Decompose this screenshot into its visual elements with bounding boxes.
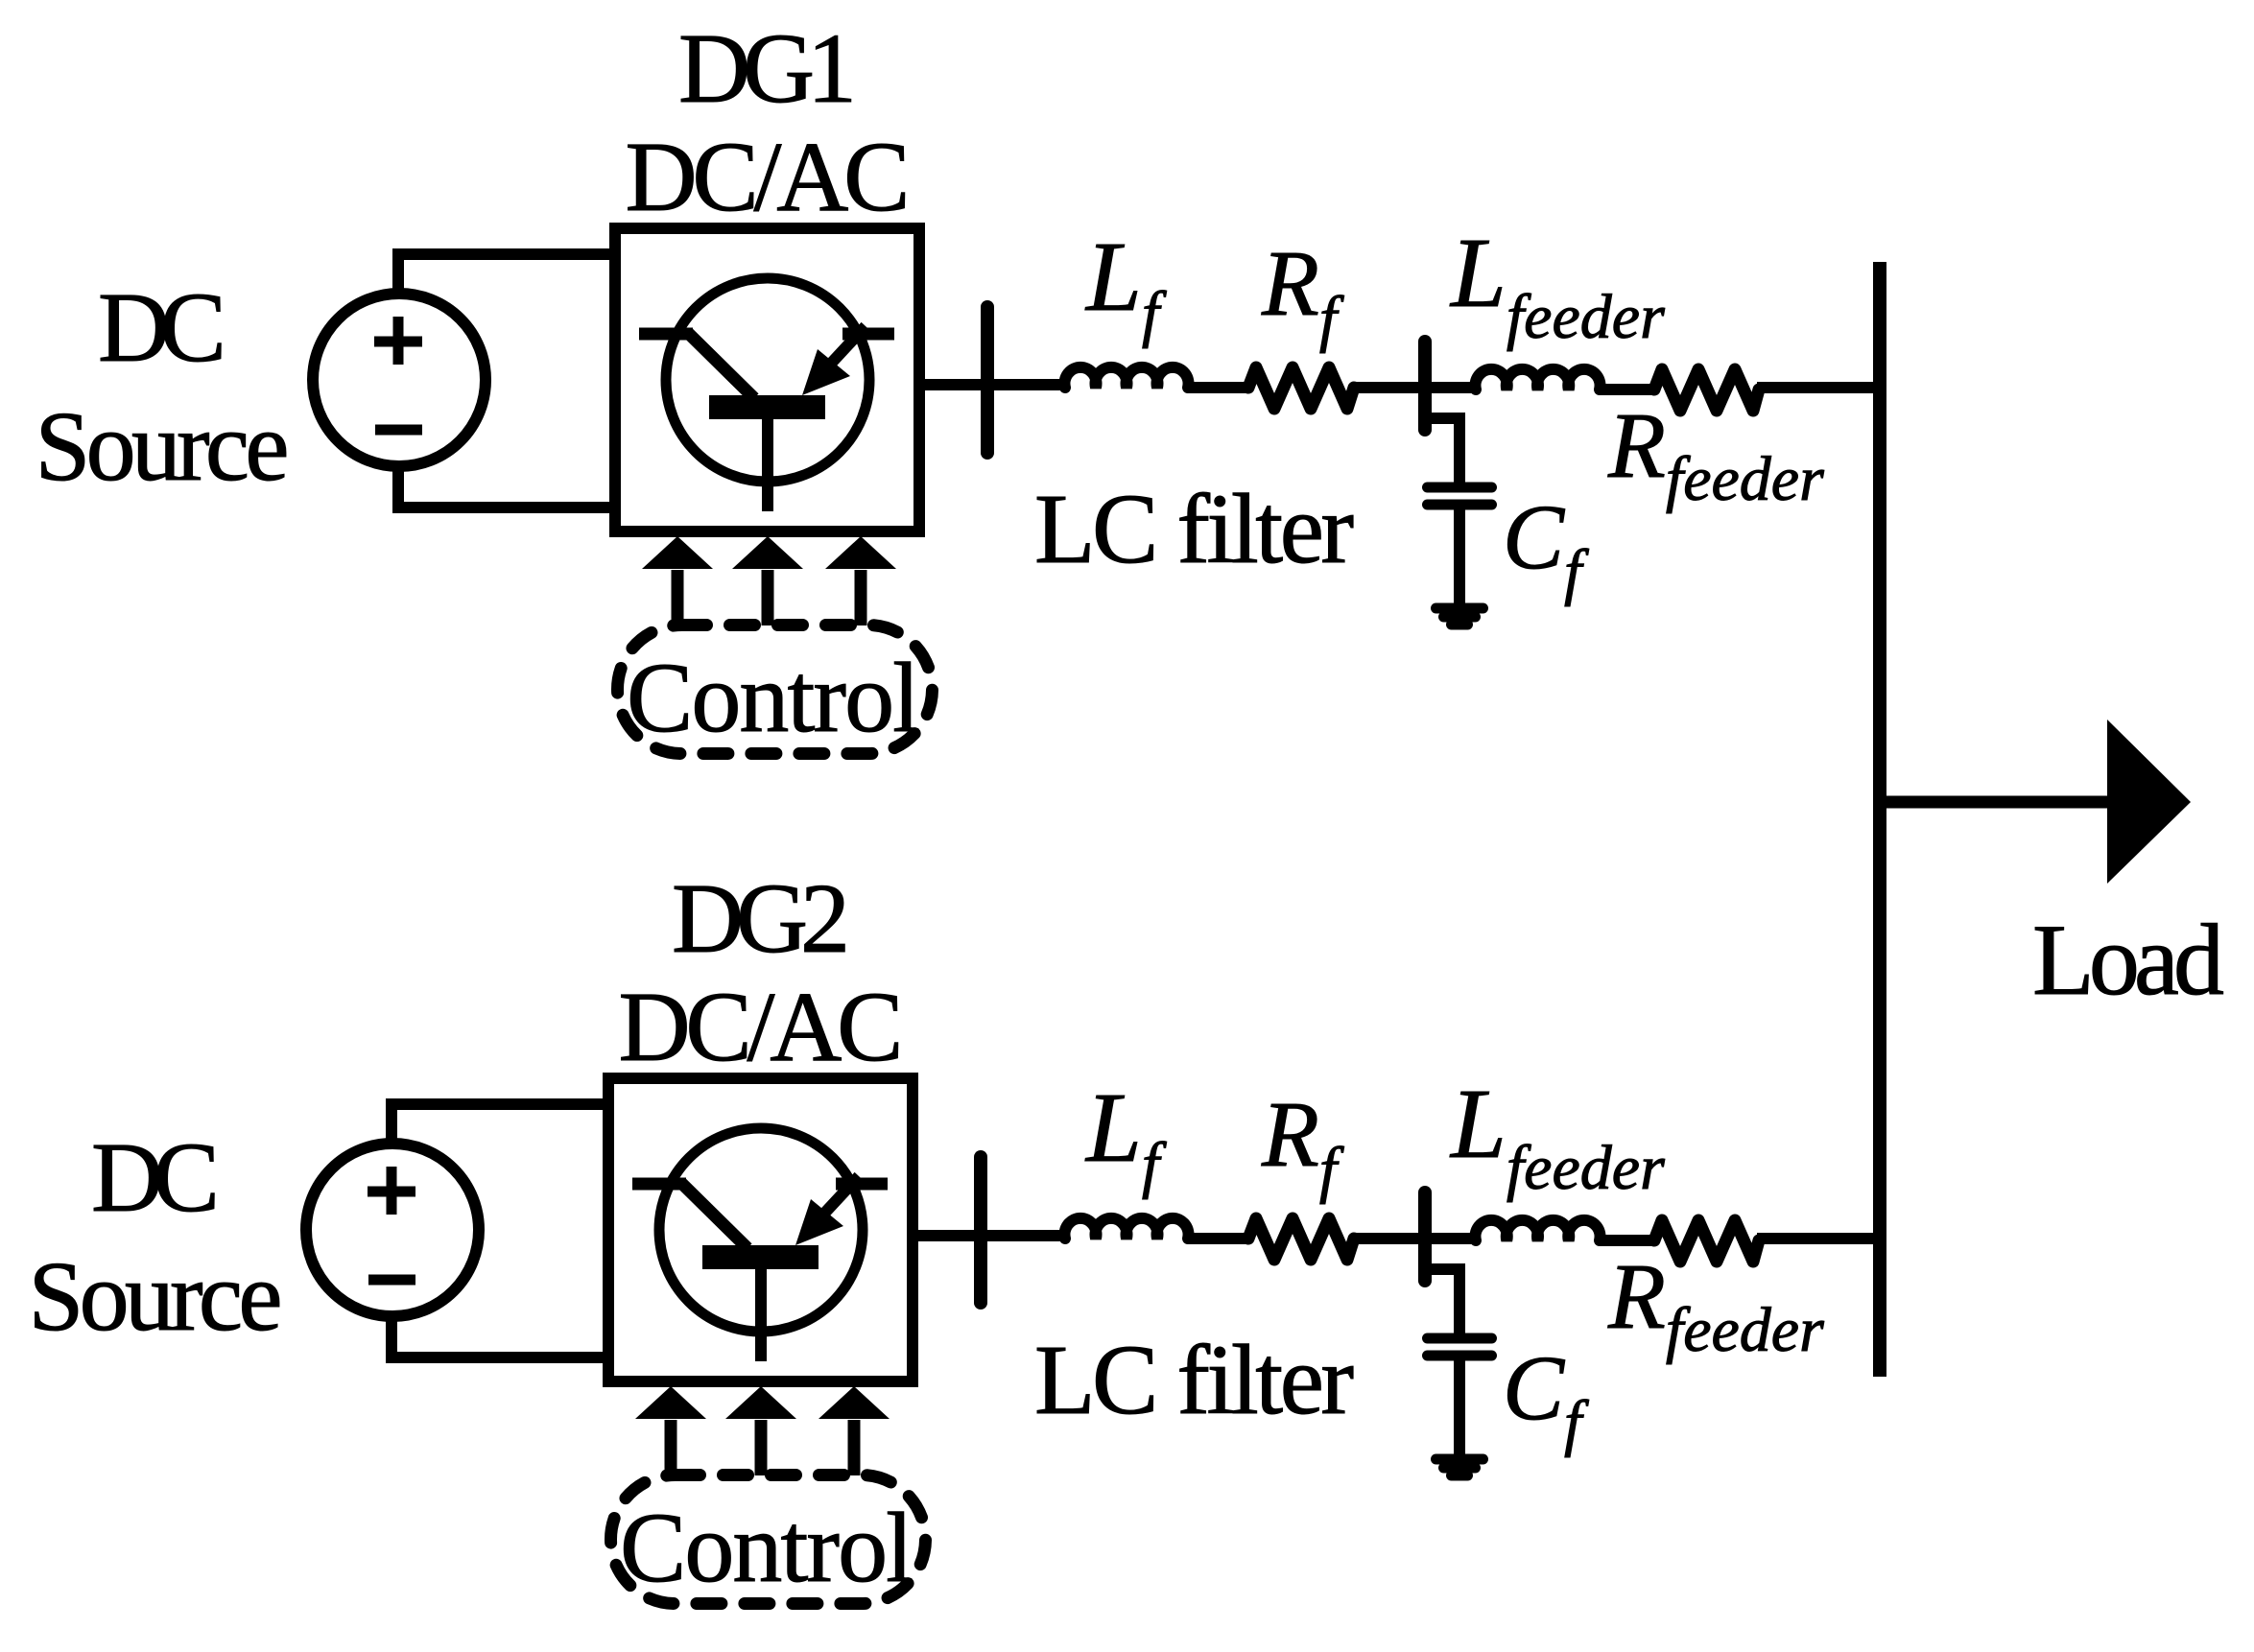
resistor Rfeeder (DG2) <box>1654 1220 1759 1262</box>
inductor Lfeeder (DG1) <box>1476 369 1601 389</box>
svg-text:LC filter: LC filter <box>1034 1325 1354 1435</box>
node tick: LC filter / feeder junction (DG1) <box>1418 342 1432 430</box>
wire: junction to capacitor Cf (DG2) <box>1426 1269 1459 1335</box>
wire: Lfeeder to Rfeeder (DG2) <box>1600 1235 1656 1246</box>
wire: DC source + terminal to converter (DG2) <box>391 1104 614 1144</box>
wire: Rfeeder to bus (DG1) <box>1757 382 1881 393</box>
DC source V1 <box>313 294 486 466</box>
label Rf (DG2) <box>1261 1083 1344 1205</box>
wire: converter output to filter (DG2) <box>913 1230 1060 1241</box>
svg-text:Source: Source <box>36 391 290 502</box>
wire: converter output to filter (DG1) <box>913 379 1060 390</box>
DC source V2 <box>306 1144 479 1316</box>
wire: DC source + terminal to converter (DG1) <box>398 254 621 294</box>
control signal arrow 3 (DG1) <box>855 570 867 625</box>
transistor Q2 (inside converter) <box>632 1128 888 1361</box>
DG2 label <box>672 863 850 974</box>
control signal arrow 2 (DG2) <box>725 1386 796 1475</box>
resistor Rf (DG2) <box>1248 1218 1354 1260</box>
control signal arrow 2 (DG1) <box>762 570 774 625</box>
wire: Lfeeder to Rfeeder (DG1) <box>1600 384 1656 395</box>
ground (below Cf, DG1) <box>1436 603 1483 614</box>
label LC filter (DG2) <box>1034 1325 1354 1435</box>
wire: junction to capacitor Cf (DG1) <box>1426 418 1459 484</box>
label Lfeeder (DG2) <box>1449 1069 1665 1203</box>
control signal arrow 1 (DG1) <box>672 570 684 625</box>
control block (DG1) <box>618 625 933 754</box>
svg-text:DC: DC <box>98 272 226 383</box>
svg-text:DG1: DG1 <box>678 13 857 124</box>
svg-text:DG2: DG2 <box>672 863 850 974</box>
svg-text:Source: Source <box>29 1241 283 1352</box>
node tick: inverter output terminal (DG1) <box>981 307 994 453</box>
DC/AC converter label (DG2) <box>619 972 904 1082</box>
label Cf (DG2) <box>1503 1336 1589 1458</box>
inductor Lfeeder (DG2) <box>1476 1220 1601 1240</box>
wire: Rf to feeder junction (DG1) <box>1352 382 1480 393</box>
DC/AC converter U2 box <box>608 1078 913 1381</box>
label Control (DG2) <box>620 1493 913 1603</box>
wire: DC source - terminal to converter (DG2) <box>391 1316 614 1357</box>
svg-text:Load: Load <box>2032 904 2224 1016</box>
control signal arrow 3 (DG2) <box>819 1386 890 1475</box>
inductor Lf (DG2) <box>1065 1218 1189 1239</box>
wire: Lf to Rf (DG2) <box>1187 1233 1250 1244</box>
control block (DG2) <box>611 1475 926 1604</box>
svg-text:Control: Control <box>620 1493 913 1603</box>
svg-text:DC/AC: DC/AC <box>619 972 904 1082</box>
resistor Rfeeder (DG1) <box>1654 369 1759 411</box>
label Rfeeder (DG2) <box>1607 1245 1824 1365</box>
resistor Rf (DG1) <box>1248 367 1354 409</box>
wire: Rf to feeder junction (DG2) <box>1352 1233 1480 1244</box>
inductor Lf (DG1) <box>1065 367 1189 388</box>
transistor Q1 (inside converter) <box>666 278 869 482</box>
ground (below Cf, DG2) <box>1436 1459 1483 1475</box>
bus bar (common AC bus) <box>1873 262 1886 1377</box>
node tick: inverter output terminal (DG2) <box>974 1157 987 1303</box>
DC Source label (DG2) <box>29 1122 283 1352</box>
label Lf (DG2) <box>1084 1073 1167 1200</box>
load arrow <box>1886 796 2110 809</box>
control signal arrow 1 (DG2) <box>635 1386 706 1475</box>
DC/AC converter U1 box <box>615 228 919 531</box>
capacitor Cf (DG1) <box>1428 483 1492 493</box>
svg-text:LC filter: LC filter <box>1034 474 1354 584</box>
wire: DC source - terminal to converter (DG1) <box>398 466 621 507</box>
svg-text:DC: DC <box>91 1122 220 1233</box>
wire: Lf to Rf (DG1) <box>1187 382 1250 393</box>
wire: Rfeeder to bus (DG2) <box>1757 1233 1881 1244</box>
svg-text:Control: Control <box>627 643 920 753</box>
node tick: LC filter / feeder junction (DG2) <box>1418 1192 1432 1281</box>
svg-text:DC/AC: DC/AC <box>626 122 911 232</box>
capacitor Cf (DG2) <box>1428 1338 1492 1454</box>
